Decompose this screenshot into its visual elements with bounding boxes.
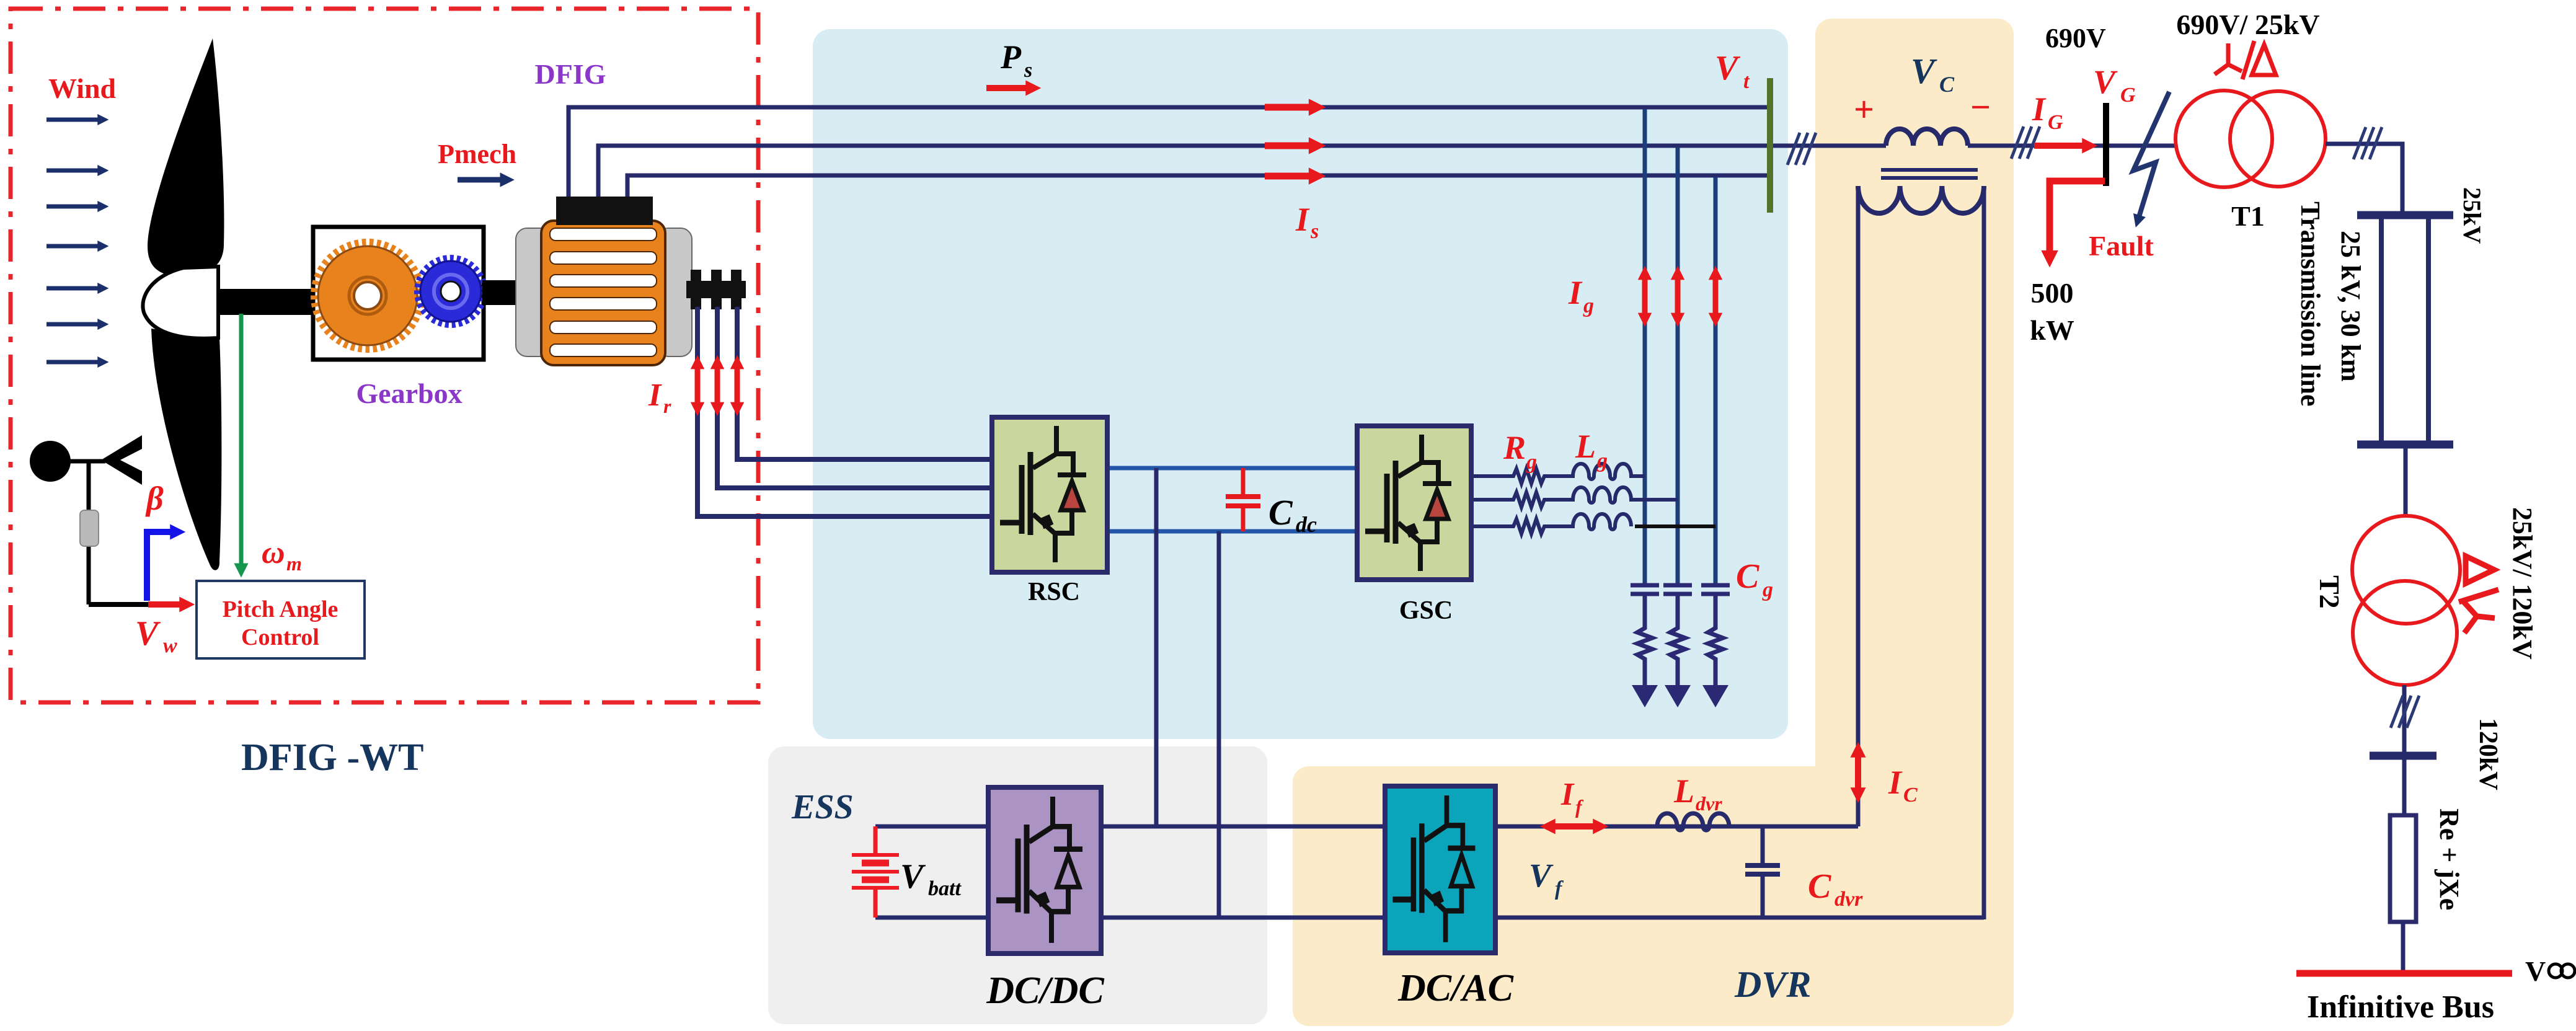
svg-text:−: −	[1970, 87, 1991, 127]
svg-text:Transmission line: Transmission line	[2295, 201, 2326, 406]
svg-text:C: C	[1736, 557, 1759, 596]
svg-text:dc: dc	[1296, 512, 1317, 537]
svg-text:β: β	[145, 480, 164, 517]
svg-text:V: V	[2093, 63, 2118, 100]
svg-text:DVR: DVR	[1734, 964, 1811, 1005]
svg-text:C: C	[1903, 784, 1918, 807]
svg-text:L: L	[1575, 428, 1596, 465]
svg-text:500: 500	[2031, 277, 2074, 309]
svg-text:V: V	[900, 857, 926, 896]
svg-text:V: V	[1529, 857, 1554, 894]
svg-text:batt: batt	[928, 877, 962, 900]
svg-text:T1: T1	[2231, 200, 2265, 232]
svg-text:DC/DC: DC/DC	[986, 970, 1104, 1012]
svg-text:g: g	[1526, 451, 1537, 474]
svg-text:C: C	[1808, 867, 1831, 906]
svg-text:Gearbox: Gearbox	[356, 378, 462, 409]
svg-text:R: R	[1503, 429, 1526, 466]
svg-text:DFIG: DFIG	[535, 58, 606, 90]
svg-text:+: +	[1854, 89, 1874, 130]
svg-text:Pitch Angle: Pitch Angle	[223, 596, 339, 622]
svg-text:dvr: dvr	[1835, 888, 1863, 911]
svg-text:ω: ω	[262, 535, 285, 570]
svg-text:690V/ 25kV: 690V/ 25kV	[2176, 9, 2319, 40]
svg-text:C: C	[1268, 492, 1293, 533]
svg-text:kW: kW	[2030, 314, 2074, 346]
svg-text:s: s	[1024, 59, 1032, 82]
svg-text:Fault: Fault	[2089, 230, 2154, 262]
svg-text:25kV: 25kV	[2458, 187, 2486, 244]
svg-text:Control: Control	[241, 624, 319, 650]
svg-text:I: I	[1568, 274, 1583, 311]
svg-text:DC/AC: DC/AC	[1397, 967, 1514, 1009]
svg-text:g: g	[1596, 449, 1608, 472]
svg-text:V: V	[1911, 51, 1937, 91]
svg-text:m: m	[286, 552, 302, 575]
svg-text:690V: 690V	[2045, 23, 2106, 53]
svg-text:V: V	[2525, 955, 2546, 987]
svg-text:T2: T2	[2314, 575, 2345, 609]
svg-text:t: t	[1743, 70, 1750, 93]
svg-text:C: C	[1939, 72, 1955, 97]
svg-text:L: L	[1673, 772, 1694, 810]
svg-text:G: G	[2048, 111, 2063, 134]
svg-text:Infinitive Bus: Infinitive Bus	[2307, 989, 2494, 1025]
svg-text:V: V	[135, 614, 161, 653]
svg-text:I: I	[2032, 91, 2047, 128]
svg-text:ESS: ESS	[791, 788, 854, 826]
svg-text:25 kV, 30 km: 25 kV, 30 km	[2335, 231, 2366, 382]
svg-text:V: V	[1715, 49, 1741, 87]
svg-text:DFIG -WT: DFIG -WT	[241, 737, 424, 779]
svg-text:g: g	[1762, 578, 1773, 601]
svg-text:Re + jXe: Re + jXe	[2434, 808, 2464, 910]
svg-text:I: I	[1560, 777, 1575, 812]
svg-text:Pmech: Pmech	[438, 139, 516, 169]
svg-text:G: G	[2120, 84, 2136, 107]
svg-text:w: w	[163, 634, 177, 657]
svg-text:I: I	[1295, 201, 1310, 238]
svg-text:r: r	[663, 395, 671, 417]
svg-text:25kV/ 120kV: 25kV/ 120kV	[2507, 507, 2538, 660]
svg-text:P: P	[1000, 38, 1022, 76]
svg-text:s: s	[1310, 220, 1319, 243]
svg-text:I: I	[1888, 764, 1903, 801]
svg-text:g: g	[1583, 294, 1594, 317]
svg-text:GSC: GSC	[1399, 596, 1453, 625]
svg-text:120kV: 120kV	[2474, 718, 2502, 790]
svg-text:I: I	[648, 378, 662, 413]
svg-text:Wind: Wind	[48, 73, 117, 104]
svg-text:dvr: dvr	[1696, 792, 1722, 815]
svg-text:RSC: RSC	[1028, 578, 1080, 606]
